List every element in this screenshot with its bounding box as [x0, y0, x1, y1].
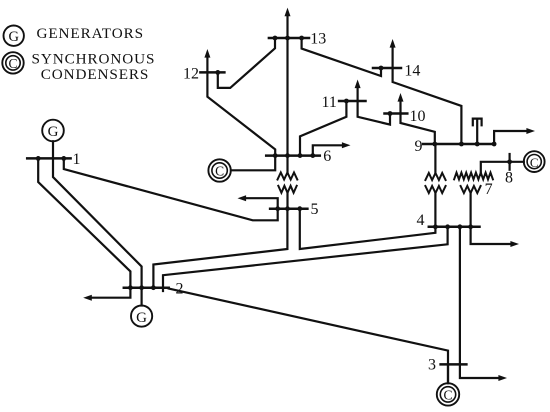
svg-text:C: C — [215, 164, 224, 179]
svg-text:SYNCHRONOUS: SYNCHRONOUS — [32, 51, 156, 68]
svg-text:G: G — [136, 310, 147, 326]
bus 14 bar — [373, 67, 401, 70]
junction bus 6 a — [273, 153, 278, 158]
svg-text:G: G — [48, 124, 59, 140]
junction bus 6 b — [285, 153, 290, 158]
wire T4-9 to bus 4 — [434, 193, 436, 227]
bus 3 bar — [441, 363, 467, 366]
wire line 11-6 — [300, 101, 346, 156]
wire bus 2 to G2 — [141, 288, 143, 306]
load arrow bus 3 — [460, 364, 507, 381]
load arrow bus 4 — [471, 227, 519, 247]
transformer T5-6 winding 1 — [278, 173, 298, 180]
junction bus 11 — [344, 99, 349, 104]
svg-text:11: 11 — [322, 94, 337, 111]
bus 5 bar — [270, 207, 307, 210]
junction bus 9 c — [475, 142, 480, 147]
junction bus 4 a — [433, 224, 438, 229]
junction bus 13 a — [273, 36, 278, 41]
wire T4-7 to bus 4 — [470, 193, 472, 227]
junction bus 13 b — [285, 36, 290, 41]
wire bus 6 to T5-6 — [286, 156, 288, 173]
wire line 10-9 — [401, 114, 435, 145]
wire C6 to bus 6 — [231, 156, 275, 171]
svg-text:4: 4 — [417, 212, 425, 229]
condenser C6 circle — [208, 159, 230, 181]
wire G1 to bus 1 — [52, 141, 54, 158]
transformer T4-9 winding 1 — [425, 173, 445, 180]
wire bus 7 to C8 — [481, 162, 524, 173]
transformer T5-6 winding 2 — [278, 186, 296, 193]
svg-text:14: 14 — [404, 63, 420, 80]
condenser C3 circle — [437, 383, 459, 405]
wire line 12-6 — [207, 72, 275, 155]
wire line 3-4 — [459, 227, 461, 365]
load arrow bus 11 — [355, 80, 361, 102]
junction bus 5 b — [285, 206, 290, 211]
svg-text:13: 13 — [310, 31, 326, 48]
junction bus 4 c — [458, 224, 463, 229]
junction bus 9 a — [432, 142, 437, 147]
svg-text:8: 8 — [505, 170, 513, 187]
junction bus 1 right — [61, 156, 66, 161]
junction bus 6 c — [298, 153, 303, 158]
svg-text:7: 7 — [485, 181, 493, 198]
svg-text:3: 3 — [428, 356, 436, 373]
junction bus 12 — [215, 70, 220, 75]
load arrow bus 12 — [204, 49, 210, 72]
junction bus 8 — [507, 159, 512, 164]
wire line 12-13 — [218, 38, 275, 88]
svg-text:C: C — [8, 56, 17, 71]
condenser C8 circle — [524, 151, 545, 172]
generator G2 circle — [131, 306, 152, 327]
wire line 14-9 — [393, 68, 462, 144]
load arrow bus 5 — [238, 195, 278, 209]
bus 12 bar — [200, 71, 224, 74]
junction bus 5 c — [297, 206, 302, 211]
svg-text:G: G — [8, 29, 19, 45]
svg-text:C: C — [530, 155, 539, 170]
svg-text:6: 6 — [323, 148, 331, 165]
transformer T4-9 winding 2 — [425, 186, 445, 193]
wire line 1-2 circuit b — [53, 158, 142, 287]
wire line 2-3 — [169, 289, 448, 384]
bus 4 bar — [429, 226, 480, 229]
junction bus 10 — [388, 111, 393, 116]
generator G1 circle — [42, 120, 64, 142]
svg-text:C: C — [443, 388, 452, 403]
bus 2 bar — [124, 286, 169, 289]
junction bus 2 c — [151, 285, 156, 290]
svg-text:10: 10 — [410, 108, 426, 125]
svg-text:2: 2 — [176, 280, 184, 297]
junction bus 13 c — [299, 36, 304, 41]
junction bus 1 left — [36, 156, 41, 161]
wire line 11-10 — [358, 101, 390, 125]
load arrow bus 9 — [494, 128, 535, 144]
svg-text:1: 1 — [73, 151, 81, 168]
svg-text:GENERATORS: GENERATORS — [37, 25, 144, 42]
load arrow bus 14 — [390, 39, 396, 68]
junction bus 14 — [379, 66, 384, 71]
junction bus 4 b — [445, 224, 450, 229]
wire line 13-6 — [286, 38, 288, 156]
junction bus 5 a — [275, 206, 280, 211]
junction bus 9 d — [492, 142, 497, 147]
bus 11 bar — [339, 100, 365, 103]
bus 1 bar — [27, 157, 70, 160]
junction bus 6 d — [310, 153, 315, 158]
shunt capacitor at bus 9 — [473, 119, 482, 144]
svg-text:CONDENSERS: CONDENSERS — [41, 66, 150, 83]
junction bus 2 a — [128, 285, 133, 290]
transformer T4-7 winding — [461, 186, 481, 193]
wire T5-6 to bus 5 — [286, 193, 288, 209]
load arrow bus 6 — [313, 142, 351, 155]
legend condenser symbol — [2, 52, 23, 73]
load arrow bus 10 — [398, 93, 404, 114]
wire line 2-4 — [163, 227, 448, 291]
bus 10 bar — [385, 112, 408, 115]
bus 6 bar — [266, 154, 320, 157]
wire bus 9 to T4-9 — [434, 144, 436, 173]
svg-text:12: 12 — [183, 65, 199, 82]
svg-text:9: 9 — [415, 138, 423, 155]
wire line 1-2 circuit a — [38, 158, 130, 287]
legend generator symbol — [4, 26, 24, 46]
load arrow bus 13 — [285, 8, 291, 38]
bus 8 tick — [509, 154, 511, 170]
wire bus 3 to C3 — [447, 364, 449, 383]
wire line 2-5 — [153, 209, 287, 288]
svg-text:5: 5 — [311, 201, 319, 218]
wire line 5-4 — [300, 209, 436, 249]
bus 13 bar — [269, 37, 309, 40]
wire line 1-5 — [64, 158, 278, 220]
wire line 13-14 — [302, 38, 381, 76]
load arrow bus 2 — [83, 288, 130, 301]
bus 9 bar — [423, 143, 494, 146]
junction bus 2 b — [139, 285, 144, 290]
junction bus 4 d — [468, 224, 473, 229]
junction bus 9 b — [459, 142, 464, 147]
transformer T7-9 winding — [454, 173, 493, 180]
